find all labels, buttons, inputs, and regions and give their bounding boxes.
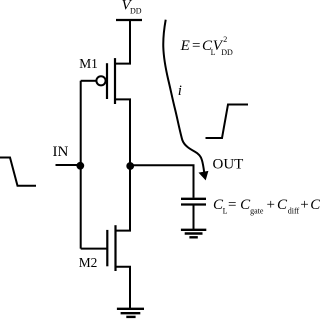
power rail VDD — [116, 19, 142, 21]
svg-text:M2: M2 — [79, 255, 98, 270]
ground under capacitor — [181, 230, 206, 238]
formula CL = Cgate + Cdiff + C — [213, 197, 320, 215]
svg-text:+: + — [300, 197, 308, 213]
wire M2 source to ground — [116, 267, 131, 308]
transistor M2 (NMOS) symbol — [107, 225, 115, 271]
node VDD label — [122, 0, 142, 16]
svg-text:IN: IN — [53, 144, 69, 160]
svg-text:+: + — [267, 197, 275, 213]
capacitor CL — [181, 199, 206, 205]
wire output node to capacitor — [130, 165, 194, 198]
waveform rising step at OUT — [206, 105, 249, 139]
svg-text:i: i — [178, 83, 182, 99]
svg-text:=: = — [192, 38, 200, 54]
svg-text:=: = — [228, 197, 236, 213]
svg-text:DD: DD — [221, 48, 233, 57]
waveform falling step at IN — [0, 158, 36, 186]
svg-text:OUT: OUT — [213, 157, 244, 173]
svg-text:C: C — [277, 197, 288, 213]
wire VDD to M1 drain — [115, 20, 130, 64]
svg-text:diff: diff — [288, 206, 300, 215]
wire M1 gate stub — [81, 80, 97, 82]
junction dot at IN node — [76, 162, 84, 170]
ground under M2 — [117, 309, 144, 317]
current arrowhead — [199, 171, 209, 181]
wire IN — [56, 164, 81, 166]
wire M1 source to output node — [115, 99, 130, 230]
svg-text:L: L — [223, 206, 228, 215]
transistor M1 (PMOS) symbol — [96, 58, 115, 104]
wire gate vertical — [80, 81, 82, 249]
svg-text:gate: gate — [250, 206, 264, 215]
svg-text:C: C — [310, 197, 320, 213]
svg-text:DD: DD — [130, 7, 142, 16]
svg-text:2: 2 — [223, 35, 227, 44]
formula E = CL VDD^2 — [180, 35, 233, 57]
current arrow curve — [163, 20, 204, 173]
wire capacitor to ground — [193, 206, 195, 230]
svg-text:E: E — [180, 38, 190, 54]
wire M2 gate stub — [81, 248, 108, 250]
junction dot at output node — [126, 162, 134, 170]
svg-text:M1: M1 — [79, 56, 98, 71]
